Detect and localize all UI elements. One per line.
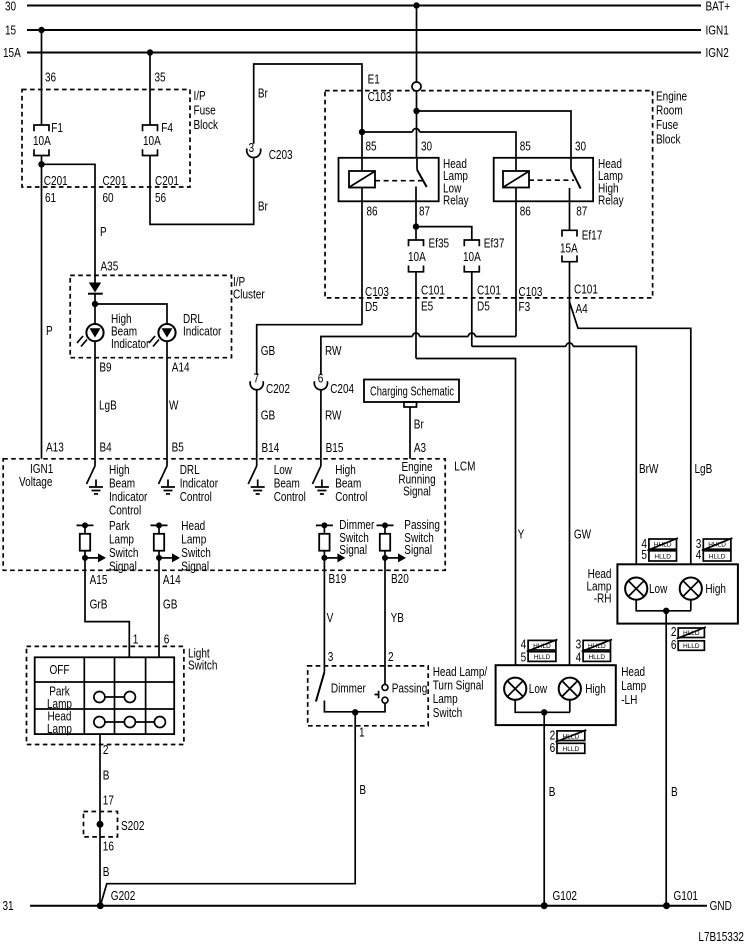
svg-text:Control: Control bbox=[180, 490, 212, 504]
wire Ef37 out D5 bbox=[471, 272, 473, 347]
svg-text:Signal: Signal bbox=[181, 560, 209, 574]
svg-text:31: 31 bbox=[3, 899, 14, 913]
svg-text:E1: E1 bbox=[368, 73, 380, 87]
fuse Ef35 10A bbox=[409, 240, 424, 246]
svg-text:Lamp: Lamp bbox=[433, 692, 458, 706]
svg-text:86: 86 bbox=[367, 205, 378, 219]
ground G102 bbox=[541, 902, 548, 909]
svg-text:Switch: Switch bbox=[181, 546, 211, 560]
LH bulb common bbox=[515, 700, 570, 713]
Head Lamp/Turn Signal Lamp Switch dashed box bbox=[308, 666, 429, 726]
passing switch signal sensor bbox=[377, 524, 394, 526]
svg-text:V: V bbox=[327, 611, 334, 625]
svg-text:Lamp: Lamp bbox=[47, 722, 72, 736]
svg-text:A14: A14 bbox=[172, 361, 190, 375]
svg-text:Control: Control bbox=[335, 490, 367, 504]
svg-text:35: 35 bbox=[155, 71, 166, 85]
connector C202 pin 7 bbox=[250, 381, 263, 390]
node BAT feed bbox=[413, 108, 419, 114]
charging schematic box bbox=[364, 380, 459, 403]
svg-text:I/P: I/P bbox=[194, 89, 206, 103]
svg-text:C103: C103 bbox=[519, 285, 543, 299]
wire 15 to F1 bbox=[41, 30, 43, 125]
wire Br C203 to E1 bbox=[254, 64, 362, 158]
svg-text:B5: B5 bbox=[172, 441, 184, 455]
high beam indicator lamp bbox=[86, 324, 103, 341]
svg-text:B: B bbox=[549, 785, 556, 799]
svg-text:GB: GB bbox=[261, 344, 276, 358]
svg-text:6: 6 bbox=[318, 372, 324, 386]
svg-text:GW: GW bbox=[574, 527, 591, 541]
wire RW to C204 with hops bbox=[475, 336, 516, 338]
connector C204 pin 6 bbox=[314, 381, 327, 390]
svg-text:16: 16 bbox=[103, 840, 114, 854]
relay low switch blade bbox=[416, 158, 418, 170]
I/P Cluster dashed box bbox=[70, 275, 231, 357]
node F1 output bbox=[38, 161, 44, 167]
svg-text:A15: A15 bbox=[90, 573, 108, 587]
svg-text:60: 60 bbox=[103, 191, 114, 205]
ground G202 bbox=[97, 902, 104, 909]
RH low bulb bbox=[625, 578, 647, 600]
svg-text:C101: C101 bbox=[421, 284, 445, 298]
svg-text:RW: RW bbox=[325, 409, 342, 423]
svg-text:3: 3 bbox=[328, 650, 334, 664]
Light Switch dashed box bbox=[27, 646, 184, 744]
svg-text:HLLD: HLLD bbox=[563, 746, 580, 753]
svg-text:Fuse: Fuse bbox=[194, 104, 216, 118]
wire E5 to Y bbox=[416, 359, 516, 666]
svg-text:BrW: BrW bbox=[639, 462, 659, 476]
dimmer switch blade bbox=[316, 672, 325, 701]
I/P Fuse Block dashed box bbox=[22, 90, 190, 188]
svg-text:86: 86 bbox=[520, 205, 531, 219]
svg-text:Fuse: Fuse bbox=[656, 118, 678, 132]
fuse Ef17 15A bbox=[562, 230, 577, 236]
ground G101 bbox=[663, 902, 670, 909]
svg-text:Low: Low bbox=[274, 463, 293, 477]
svg-text:High: High bbox=[585, 682, 606, 696]
wire Ef17 out A4 bbox=[569, 262, 571, 666]
svg-text:L7B15332: L7B15332 bbox=[698, 930, 744, 944]
bus 15A IGN2 bbox=[27, 52, 701, 54]
svg-text:Indicator: Indicator bbox=[180, 477, 218, 491]
wire GB to C202 bbox=[257, 325, 362, 375]
svg-text:GB: GB bbox=[261, 409, 276, 423]
svg-text:C201: C201 bbox=[103, 174, 127, 188]
wire to DRL indicator bbox=[95, 304, 167, 324]
svg-text:F4: F4 bbox=[161, 121, 173, 135]
node on bus15 bbox=[38, 27, 44, 33]
svg-text:High: High bbox=[335, 463, 356, 477]
connector circle at engine box edge bbox=[412, 82, 421, 91]
svg-text:C103: C103 bbox=[365, 285, 389, 299]
wire Br to A3 bbox=[409, 407, 411, 459]
svg-text:15A: 15A bbox=[3, 46, 21, 60]
wire BAT+ drop to relays bbox=[416, 6, 418, 158]
svg-text:5: 5 bbox=[521, 650, 527, 664]
fuse F1 10A bbox=[34, 125, 49, 131]
svg-text:B: B bbox=[103, 769, 110, 783]
svg-text:30: 30 bbox=[575, 139, 586, 153]
wire to high relay 85 with hop bbox=[362, 131, 413, 133]
svg-text:30: 30 bbox=[421, 139, 432, 153]
svg-text:B19: B19 bbox=[329, 572, 347, 586]
diode bbox=[89, 283, 101, 293]
head lamp switch signal sensor bbox=[151, 524, 168, 526]
svg-text:Turn Signal: Turn Signal bbox=[433, 679, 484, 693]
svg-text:BAT+: BAT+ bbox=[706, 0, 731, 14]
fuse F4 10A bbox=[143, 125, 158, 131]
wire relay low 86 to C103 D5 bbox=[361, 201, 363, 324]
svg-text:G102: G102 bbox=[553, 889, 578, 903]
wire to high relay 30 bbox=[417, 111, 572, 158]
wire 15A to F4 bbox=[149, 53, 151, 126]
wire B9 to B4 bbox=[94, 341, 96, 459]
park lamp switch signal sensor bbox=[77, 524, 94, 526]
svg-text:Signal: Signal bbox=[109, 560, 137, 574]
svg-text:Lamp: Lamp bbox=[109, 533, 134, 547]
svg-text:Control: Control bbox=[109, 504, 141, 518]
svg-text:Switch: Switch bbox=[433, 706, 463, 720]
connector C203 pin 3 bbox=[247, 149, 261, 158]
high beam indicator control switch bbox=[94, 459, 96, 466]
head lamp low relay box bbox=[339, 158, 439, 202]
svg-text:15: 15 bbox=[5, 24, 16, 38]
DRL indicator control switch bbox=[166, 459, 168, 466]
svg-text:C101: C101 bbox=[477, 284, 501, 298]
svg-text:F3: F3 bbox=[519, 300, 531, 314]
svg-text:-RH: -RH bbox=[594, 591, 612, 605]
svg-text:C101: C101 bbox=[574, 283, 598, 297]
svg-text:B4: B4 bbox=[100, 441, 112, 455]
svg-text:S202: S202 bbox=[121, 819, 144, 833]
svg-text:D5: D5 bbox=[477, 300, 490, 314]
svg-text:85: 85 bbox=[366, 139, 377, 153]
svg-text:C203: C203 bbox=[269, 148, 293, 162]
ground B5 bbox=[161, 480, 175, 495]
svg-text:Br: Br bbox=[258, 87, 268, 101]
svg-text:Head: Head bbox=[181, 519, 205, 533]
wire A4 to LgB bbox=[570, 302, 691, 564]
svg-text:Signal: Signal bbox=[339, 543, 367, 557]
svg-text:87: 87 bbox=[576, 205, 587, 219]
passing switch contacts bbox=[382, 684, 388, 690]
svg-text:B: B bbox=[671, 785, 678, 799]
relay high coil bbox=[515, 158, 517, 171]
wire A14 to B5 bbox=[166, 341, 168, 459]
svg-text:Dimmer: Dimmer bbox=[331, 682, 366, 696]
svg-text:6: 6 bbox=[550, 741, 556, 755]
relay high switch blade bbox=[570, 158, 572, 170]
svg-text:IGN2: IGN2 bbox=[706, 46, 729, 60]
svg-text:HLLD: HLLD bbox=[588, 654, 605, 661]
svg-text:Head: Head bbox=[621, 665, 645, 679]
Head Lamp -RH box bbox=[617, 564, 738, 623]
DRL indicator lamp bbox=[158, 324, 175, 341]
fuse Ef37 10A bbox=[464, 240, 479, 246]
svg-text:C204: C204 bbox=[330, 382, 354, 396]
light switch table bbox=[35, 657, 175, 734]
svg-text:Cluster: Cluster bbox=[233, 288, 265, 302]
svg-text:RW: RW bbox=[325, 344, 342, 358]
low beam control switch bbox=[256, 459, 258, 466]
svg-text:Passing: Passing bbox=[392, 682, 428, 696]
svg-text:HLLD: HLLD bbox=[709, 553, 726, 560]
svg-text:Low: Low bbox=[649, 582, 668, 596]
svg-text:Br: Br bbox=[258, 200, 268, 214]
svg-text:IGN1: IGN1 bbox=[706, 24, 729, 38]
svg-text:1: 1 bbox=[359, 726, 365, 740]
svg-text:30: 30 bbox=[5, 0, 16, 14]
svg-text:6: 6 bbox=[164, 632, 170, 646]
ground B4 bbox=[89, 480, 103, 495]
node dimmer out bbox=[352, 709, 358, 715]
wire F1 out to junction bbox=[41, 156, 43, 165]
splice S202 bbox=[84, 812, 118, 837]
svg-text:Lamp: Lamp bbox=[181, 533, 206, 547]
relay high link bbox=[529, 179, 574, 181]
svg-text:E5: E5 bbox=[421, 300, 433, 314]
svg-text:Voltage: Voltage bbox=[19, 475, 52, 489]
svg-text:P: P bbox=[46, 324, 53, 338]
svg-text:2: 2 bbox=[388, 650, 394, 664]
svg-text:2: 2 bbox=[103, 743, 109, 757]
svg-text:Ef17: Ef17 bbox=[582, 229, 603, 243]
wire A14 GB to light switch pin 6 bbox=[158, 570, 160, 657]
wire low relay 87 to fuses bbox=[415, 201, 417, 240]
svg-text:85: 85 bbox=[520, 139, 531, 153]
svg-text:36: 36 bbox=[45, 71, 56, 85]
svg-text:High: High bbox=[705, 582, 726, 596]
svg-text:4: 4 bbox=[696, 548, 702, 562]
svg-text:G101: G101 bbox=[674, 889, 699, 903]
svg-text:10A: 10A bbox=[143, 134, 161, 148]
svg-text:6: 6 bbox=[671, 638, 677, 652]
svg-text:P: P bbox=[100, 225, 107, 239]
svg-text:B: B bbox=[359, 783, 366, 797]
svg-text:A3: A3 bbox=[414, 441, 426, 455]
svg-text:YB: YB bbox=[391, 611, 404, 625]
svg-text:Ef37: Ef37 bbox=[484, 236, 505, 250]
Head Lamp -LH box bbox=[496, 665, 616, 725]
RH bulb common bbox=[636, 600, 691, 611]
ground B14 bbox=[251, 480, 265, 495]
head lamp contacts bbox=[99, 721, 159, 723]
svg-text:LgB: LgB bbox=[695, 462, 713, 476]
relay low link bbox=[375, 180, 424, 182]
svg-text:15A: 15A bbox=[560, 242, 578, 256]
svg-text:Engine: Engine bbox=[656, 89, 687, 103]
svg-text:Block: Block bbox=[194, 118, 219, 132]
svg-text:4: 4 bbox=[576, 650, 582, 664]
svg-text:F1: F1 bbox=[51, 121, 63, 135]
node 87 split bbox=[413, 223, 419, 229]
svg-text:Signal: Signal bbox=[404, 543, 432, 557]
svg-text:Relay: Relay bbox=[443, 193, 469, 207]
LH high bulb bbox=[559, 678, 581, 700]
svg-text:1: 1 bbox=[133, 632, 139, 646]
svg-text:Head Lamp/: Head Lamp/ bbox=[433, 665, 488, 679]
svg-text:61: 61 bbox=[45, 191, 56, 205]
svg-text:Signal: Signal bbox=[403, 485, 431, 499]
svg-text:OFF: OFF bbox=[50, 663, 70, 677]
svg-text:C201: C201 bbox=[44, 174, 68, 188]
svg-text:C202: C202 bbox=[266, 382, 290, 396]
svg-text:A13: A13 bbox=[46, 441, 64, 455]
svg-text:7: 7 bbox=[254, 372, 260, 386]
wire B20 YB to passing bbox=[384, 570, 386, 684]
node on bus30 bbox=[413, 2, 419, 8]
LH low bulb bbox=[504, 678, 526, 700]
svg-text:B14: B14 bbox=[262, 441, 280, 455]
svg-text:Beam: Beam bbox=[109, 477, 135, 491]
svg-text:56: 56 bbox=[155, 191, 166, 205]
svg-text:A14: A14 bbox=[163, 573, 181, 587]
wire 56 to C203 bbox=[150, 156, 254, 225]
high beam control switch bbox=[320, 459, 322, 466]
node diode out bbox=[92, 301, 98, 307]
svg-text:A35: A35 bbox=[101, 260, 119, 274]
svg-text:C103: C103 bbox=[368, 90, 392, 104]
svg-text:10A: 10A bbox=[463, 250, 481, 264]
svg-text:GND: GND bbox=[710, 899, 732, 913]
bus 30 BAT+ bbox=[27, 5, 701, 7]
svg-text:Relay: Relay bbox=[598, 193, 624, 207]
wire A15 GrB to light switch pin 1 bbox=[85, 570, 129, 657]
svg-text:Beam: Beam bbox=[335, 477, 361, 491]
svg-text:5: 5 bbox=[641, 548, 647, 562]
svg-text:W: W bbox=[169, 398, 179, 412]
svg-text:Ef35: Ef35 bbox=[429, 236, 450, 250]
svg-text:Charging Schematic: Charging Schematic bbox=[370, 384, 454, 398]
svg-text:Y: Y bbox=[518, 527, 525, 541]
bus 15 IGN1 bbox=[27, 29, 701, 31]
wire high relay 87 to Ef17 bbox=[569, 201, 571, 230]
relay low coil bbox=[361, 158, 363, 171]
wire 61 to A13 bbox=[41, 164, 43, 459]
ground B15 bbox=[315, 480, 329, 495]
wire branch 60 to A35 bbox=[42, 164, 96, 283]
svg-text:17: 17 bbox=[103, 794, 114, 808]
svg-text:LgB: LgB bbox=[99, 398, 117, 412]
svg-text:HLLD: HLLD bbox=[534, 654, 551, 661]
LCM dashed box bbox=[3, 459, 445, 571]
svg-text:Room: Room bbox=[656, 104, 683, 118]
svg-text:GB: GB bbox=[163, 597, 178, 611]
svg-text:A4: A4 bbox=[576, 302, 588, 316]
RH high bulb bbox=[680, 578, 702, 600]
svg-text:C201: C201 bbox=[155, 174, 179, 188]
svg-text:GrB: GrB bbox=[90, 597, 108, 611]
wire GB to B14 bbox=[256, 390, 258, 459]
svg-text:10A: 10A bbox=[408, 250, 426, 264]
svg-text:Switch: Switch bbox=[109, 546, 139, 560]
svg-text:HLLD: HLLD bbox=[683, 643, 700, 650]
svg-text:B15: B15 bbox=[326, 441, 344, 455]
svg-text:G202: G202 bbox=[111, 889, 136, 903]
bus 31 GND bbox=[30, 905, 707, 907]
svg-text:B9: B9 bbox=[99, 361, 111, 375]
svg-text:Lamp: Lamp bbox=[621, 679, 646, 693]
svg-text:B20: B20 bbox=[391, 572, 409, 586]
svg-text:Indicator: Indicator bbox=[183, 324, 221, 338]
svg-text:Indicator: Indicator bbox=[111, 337, 149, 351]
svg-text:Park: Park bbox=[109, 519, 130, 533]
svg-text:HLLD: HLLD bbox=[654, 553, 671, 560]
wire B19 V to dimmer bbox=[323, 570, 325, 672]
svg-text:Block: Block bbox=[656, 133, 681, 147]
svg-text:10A: 10A bbox=[33, 134, 51, 148]
head lamp high relay box bbox=[494, 158, 593, 202]
node E1 feed bbox=[359, 129, 365, 135]
svg-text:Beam: Beam bbox=[274, 477, 300, 491]
Engine Room Fuse Block dashed box bbox=[325, 91, 653, 298]
svg-text:87: 87 bbox=[419, 205, 430, 219]
svg-text:Indicator: Indicator bbox=[109, 490, 147, 504]
svg-text:D5: D5 bbox=[365, 300, 378, 314]
svg-text:Control: Control bbox=[274, 490, 306, 504]
dimmer switch signal sensor bbox=[316, 524, 333, 526]
wire RW to B15 bbox=[320, 390, 322, 459]
wire pin 1 B to ground bbox=[100, 712, 355, 906]
wire D5 to BrW with hop bbox=[472, 345, 566, 347]
svg-text:DRL: DRL bbox=[180, 463, 200, 477]
wire relay high 86 to C103 F3 bbox=[515, 201, 517, 336]
svg-text:-LH: -LH bbox=[621, 693, 637, 707]
svg-text:LCM: LCM bbox=[454, 459, 475, 473]
wire pin 2 to S202 bbox=[99, 734, 101, 906]
park lamp contacts bbox=[99, 696, 129, 698]
wire Ef35 out E5 bbox=[415, 272, 417, 359]
svg-text:High: High bbox=[109, 463, 130, 477]
node on bus15A bbox=[147, 49, 153, 55]
svg-text:Br: Br bbox=[414, 418, 424, 432]
svg-text:Switch: Switch bbox=[188, 658, 218, 672]
svg-text:B: B bbox=[103, 865, 110, 879]
svg-text:Low: Low bbox=[529, 682, 548, 696]
